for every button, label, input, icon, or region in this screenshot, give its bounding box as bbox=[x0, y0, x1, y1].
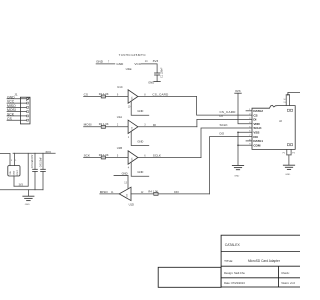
svg-text:U1E: U1E bbox=[126, 67, 132, 71]
svg-text:GND: GND bbox=[96, 59, 104, 63]
enable pin 4 wire to ground bbox=[131, 162, 149, 176]
regulator U2 662K bbox=[8, 166, 20, 177]
socket top mount pins bbox=[285, 95, 287, 106]
svg-text:C3 10uF/16V: C3 10uF/16V bbox=[32, 154, 34, 168]
wire J1 GND bbox=[7, 98, 27, 100]
svg-text:DO: DO bbox=[220, 131, 225, 135]
svg-text:COM: COM bbox=[253, 143, 260, 147]
ground symbol right of socket bbox=[283, 165, 295, 169]
svg-text:GND: GND bbox=[137, 109, 143, 113]
svg-text:SCK: SCK bbox=[84, 153, 91, 157]
svg-text:GND: GND bbox=[137, 139, 143, 143]
wire R1 to pin 9 bbox=[106, 96, 129, 98]
svg-text:GND: GND bbox=[25, 204, 30, 206]
wire rail to regulator top pin bbox=[13, 153, 15, 165]
svg-text:DO: DO bbox=[174, 190, 179, 194]
tri-state buffer triangle U1C bbox=[128, 90, 138, 103]
wire DI to socket bbox=[197, 119, 252, 126]
pin stub DATA1 bbox=[246, 140, 252, 142]
wire COM to ground vertical bbox=[238, 144, 252, 146]
svg-text:GND: GND bbox=[13, 170, 15, 175]
bottom pads bbox=[287, 144, 289, 146]
junction COM bbox=[237, 144, 239, 146]
wire SCLK to socket bbox=[201, 128, 252, 158]
svg-text:U1A: U1A bbox=[117, 115, 122, 119]
wire regulator bottom pin down bbox=[13, 176, 15, 186]
svg-text:VCC: VCC bbox=[134, 62, 141, 66]
enable pin 13 wire up to ground bbox=[127, 176, 129, 189]
wire to earth ground bbox=[27, 190, 29, 196]
svg-text:Check:: Check: bbox=[281, 271, 290, 275]
wire J1 MISO bbox=[7, 106, 27, 108]
svg-text:Date: 07/23/2013: Date: 07/23/2013 bbox=[224, 281, 245, 285]
svg-text:CS: CS bbox=[7, 117, 12, 121]
wire SCK to R3 bbox=[84, 157, 102, 159]
wire pin 12 to R4 bbox=[131, 193, 154, 195]
svg-text:MOSI: MOSI bbox=[84, 123, 92, 127]
title block main box bbox=[158, 235, 301, 287]
svg-text:U1D: U1D bbox=[129, 203, 134, 207]
wire CS to R1 bbox=[84, 96, 102, 98]
tri-state buffer triangle U1A bbox=[128, 120, 138, 133]
svg-text:J2: J2 bbox=[279, 119, 282, 123]
wire 3V3 down to C1 bbox=[156, 64, 158, 73]
junction VSS bbox=[237, 132, 239, 134]
wire to ground right bbox=[288, 155, 290, 165]
svg-text:MISO: MISO bbox=[100, 190, 109, 194]
J1 connector body bbox=[20, 97, 30, 124]
wire pin 6 out bbox=[138, 157, 201, 159]
svg-text:SCLK: SCLK bbox=[220, 123, 229, 127]
svg-text:VOUT: VOUT bbox=[17, 169, 19, 175]
socket bottom mount pins bbox=[286, 149, 288, 155]
enable pin 1 wire to ground bbox=[131, 131, 149, 145]
wire J1 MOSI bbox=[7, 111, 27, 113]
tri-state buffer triangle U1B bbox=[128, 151, 138, 164]
wire MISO to pin 11 bbox=[100, 193, 119, 195]
svg-text:TITLE:: TITLE: bbox=[224, 259, 233, 263]
svg-text:3V3: 3V3 bbox=[153, 59, 159, 63]
svg-text:3V3: 3V3 bbox=[19, 183, 24, 186]
enable pin 10 wire to ground bbox=[131, 101, 149, 115]
capacitor C3 bbox=[34, 153, 36, 169]
svg-text:DI: DI bbox=[220, 114, 223, 118]
wire VCC pin 14 to 3V3 bbox=[141, 63, 157, 65]
wire CS_CARD to socket bbox=[197, 97, 252, 116]
wire 3V3 to VDD pin bbox=[238, 93, 252, 124]
wire MOSI to R2 bbox=[84, 126, 102, 128]
svg-text:SCLK: SCLK bbox=[153, 154, 162, 158]
svg-text:GND: GND bbox=[234, 175, 239, 177]
svg-text:74VHC125MTC: 74VHC125MTC bbox=[119, 53, 147, 57]
svg-text:MicroSD Card Adapter: MicroSD Card Adapter bbox=[248, 259, 281, 263]
connector pin pads bbox=[27, 98, 29, 121]
svg-text:Vision: v1.0: Vision: v1.0 bbox=[281, 281, 295, 285]
wire 3V3 output bbox=[14, 185, 28, 187]
wire 3V3 vertical to rail bbox=[27, 153, 29, 186]
wire 5V down to regulator VIN bbox=[9, 154, 11, 166]
pin numbers bbox=[249, 109, 251, 145]
svg-text:U1B: U1B bbox=[117, 146, 122, 150]
wire pin 3 out bbox=[138, 126, 197, 128]
pin stub DATA2 bbox=[246, 110, 252, 112]
pin 1 marker bbox=[27, 98, 30, 100]
wire R4 to DO corner bbox=[158, 193, 209, 195]
wire card detect to edge bbox=[288, 92, 300, 94]
wire C1 to ground bbox=[156, 75, 158, 82]
svg-text:Design: Stell.Chu: Design: Stell.Chu bbox=[224, 271, 245, 275]
svg-text:DI: DI bbox=[153, 123, 156, 127]
ground under C1 bbox=[154, 81, 161, 83]
wire VSS to ground bbox=[238, 132, 252, 165]
ground U1D enable bbox=[114, 175, 129, 177]
capacitor C4 bbox=[42, 153, 44, 169]
wire pin 8 out bbox=[138, 96, 197, 98]
svg-text:GND: GND bbox=[137, 170, 143, 174]
svg-text:VIN: VIN bbox=[10, 171, 12, 175]
svg-text:3: 3 bbox=[11, 160, 12, 162]
svg-text:GND: GND bbox=[116, 62, 124, 66]
svg-text:3V3: 3V3 bbox=[45, 150, 51, 154]
title block left box bbox=[158, 267, 221, 287]
svg-text:CATALEX: CATALEX bbox=[225, 243, 241, 247]
svg-text:U1C: U1C bbox=[117, 85, 122, 89]
svg-text:CS_CARD: CS_CARD bbox=[152, 93, 169, 97]
earth ground symbol bbox=[22, 196, 34, 200]
wire J1 SCK bbox=[7, 115, 27, 117]
svg-text:1: 1 bbox=[15, 160, 16, 162]
wire R2 to pin 2 bbox=[106, 126, 129, 128]
ground symbol left of socket bbox=[232, 166, 244, 170]
tri-state buffer triangle U1D bbox=[119, 187, 131, 200]
regulator section 5V input rail bbox=[0, 153, 10, 155]
wire J1 CS bbox=[7, 119, 27, 121]
card socket J2 outline bbox=[252, 105, 295, 149]
svg-text:C4 100nF: C4 100nF bbox=[40, 157, 42, 168]
svg-text:C1 100nF: C1 100nF bbox=[161, 67, 164, 78]
svg-text:GND: GND bbox=[285, 174, 290, 176]
wire DO to socket bbox=[210, 137, 253, 194]
svg-text:J1: J1 bbox=[14, 93, 18, 97]
capacitor C1 100nF bbox=[154, 72, 160, 74]
svg-text:GND: GND bbox=[148, 81, 154, 85]
svg-text:CS: CS bbox=[84, 92, 88, 96]
bottom ground rail bbox=[0, 189, 43, 191]
3V3 output rail bbox=[13, 152, 55, 154]
svg-text:3V3: 3V3 bbox=[235, 89, 241, 93]
top pads bbox=[287, 109, 289, 111]
svg-text:GND: GND bbox=[122, 172, 128, 176]
wire GND to pin 7 bbox=[96, 63, 115, 65]
wire J1 VCC bbox=[7, 102, 27, 104]
wire R3 to pin 5 bbox=[106, 157, 129, 159]
